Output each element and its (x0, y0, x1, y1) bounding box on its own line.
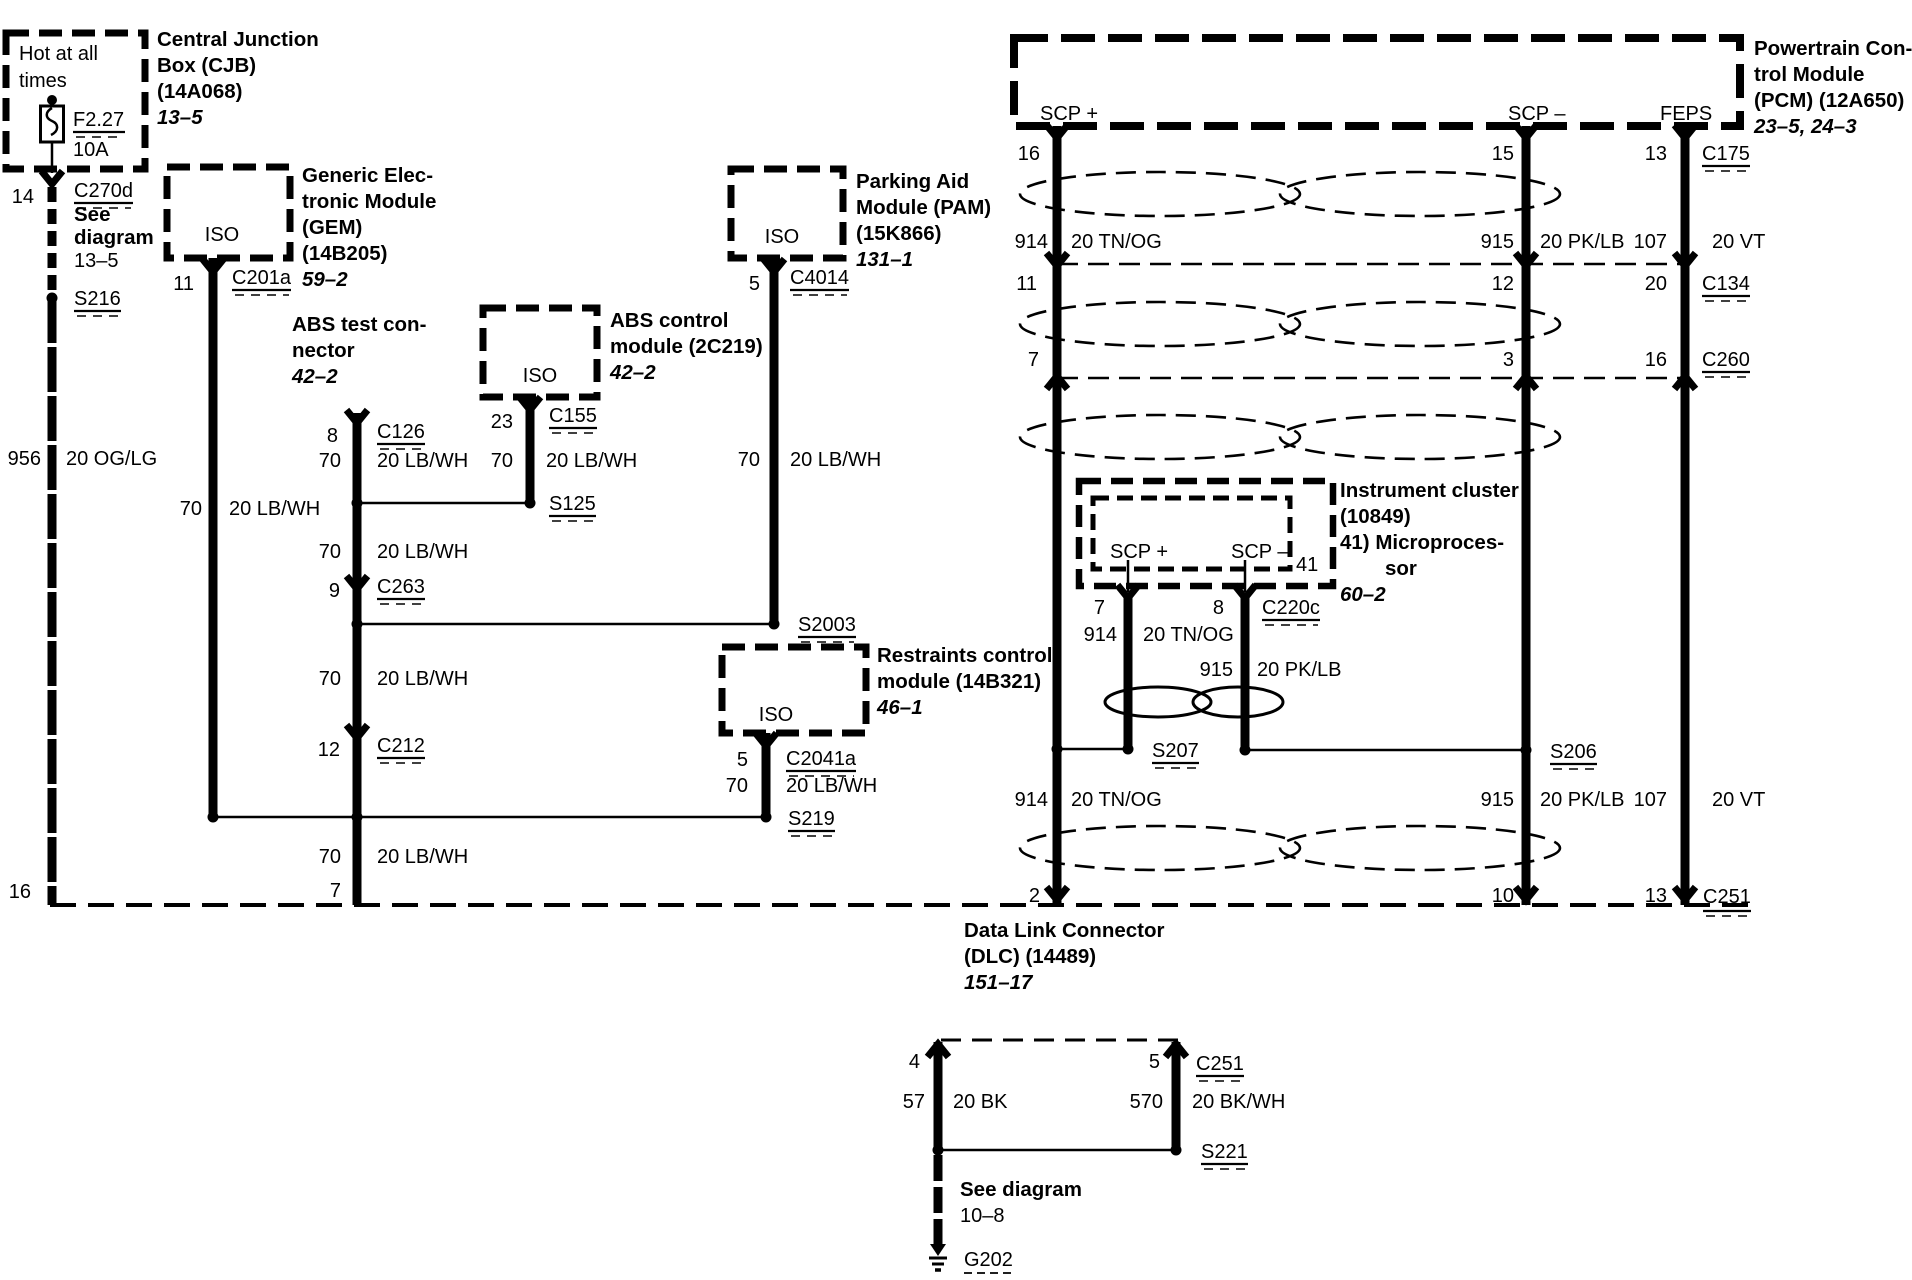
svg-text:C175: C175 (1702, 143, 1750, 165)
svg-text:13: 13 (1645, 885, 1667, 907)
svg-text:C263: C263 (377, 576, 425, 598)
svg-text:S216: S216 (74, 288, 121, 310)
svg-text:10: 10 (1492, 885, 1514, 907)
svg-text:20 LB/WH: 20 LB/WH (790, 449, 881, 471)
svg-text:12: 12 (318, 739, 340, 761)
twisted pair symbol row 2 (1020, 302, 1560, 346)
svg-text:C270d: C270d (74, 180, 133, 202)
svg-text:16: 16 (9, 881, 31, 903)
svg-text:20 TN/OG: 20 TN/OG (1071, 231, 1162, 253)
svg-text:Powertrain Con-: Powertrain Con- (1754, 37, 1912, 60)
svg-text:(14B205): (14B205) (302, 242, 387, 265)
svg-text:57: 57 (903, 1091, 925, 1113)
svg-text:914: 914 (1084, 624, 1117, 646)
svg-text:4: 4 (909, 1051, 920, 1073)
svg-text:7: 7 (1094, 597, 1105, 619)
connector C263 arrow pin 9 (347, 576, 368, 589)
Instrument cluster outer dashed box (1079, 481, 1333, 586)
svg-text:20: 20 (1645, 273, 1667, 295)
svg-text:nector: nector (292, 339, 355, 362)
svg-text:20 LB/WH: 20 LB/WH (229, 498, 320, 520)
Instrument cluster inner dashed box (41 Microprocessor) (1093, 498, 1290, 569)
svg-text:G202: G202 (964, 1249, 1013, 1271)
svg-text:14: 14 (12, 186, 34, 208)
svg-text:ISO: ISO (205, 224, 239, 246)
connector C4014 arrow pin 5 (764, 259, 785, 272)
svg-text:10A: 10A (73, 139, 109, 161)
cluster SCP+ lead wire (1127, 560, 1130, 592)
svg-text:Module (PAM): Module (PAM) (856, 196, 991, 219)
wire SCP+ (914 20 TN/OG) (1053, 126, 1062, 905)
svg-text:SCP –: SCP – (1508, 103, 1566, 125)
svg-text:2: 2 (1029, 885, 1040, 907)
splice S216 (47, 293, 58, 304)
Generic Electronic Module (GEM) dashed box (167, 167, 290, 258)
svg-text:70: 70 (319, 450, 341, 472)
svg-text:times: times (19, 70, 67, 92)
svg-text:C220c: C220c (1262, 597, 1320, 619)
svg-text:(14A068): (14A068) (157, 80, 242, 103)
connector C155 arrow pin 23 (520, 397, 541, 410)
svg-text:13: 13 (1645, 143, 1667, 165)
connector C270d arrow pin 14 (42, 171, 63, 184)
svg-text:11: 11 (173, 273, 194, 295)
ABS control module (2C219) dashed box (483, 308, 597, 397)
svg-text:sor: sor (1385, 557, 1417, 580)
svg-text:S2003: S2003 (798, 614, 856, 636)
svg-text:42–2: 42–2 (609, 361, 656, 384)
svg-text:20 LB/WH: 20 LB/WH (377, 450, 468, 472)
svg-text:C4014: C4014 (790, 267, 849, 289)
svg-text:Parking Aid: Parking Aid (856, 170, 969, 193)
svg-text:FEPS: FEPS (1660, 103, 1712, 125)
svg-text:20 LB/WH: 20 LB/WH (546, 450, 637, 472)
svg-text:107: 107 (1634, 231, 1667, 253)
dashed wire to ground (934, 1155, 943, 1246)
faint second underlines (scan artifact style) (76, 137, 1749, 1169)
svg-text:See: See (74, 203, 110, 226)
small twisted pair symbol (1105, 687, 1283, 717)
DLC ground subcircuit dashed connector line (941, 1039, 1179, 1042)
svg-text:915: 915 (1200, 659, 1233, 681)
PAM wire 70 20 LB/WH (770, 258, 779, 624)
connector C2041a arrow pin 5 (756, 733, 777, 746)
RCM wire 70 20 LB/WH (762, 733, 771, 817)
svg-text:C251: C251 (1196, 1053, 1244, 1075)
svg-text:5: 5 (1149, 1051, 1160, 1073)
GEM wire 70 20 LB/WH (209, 258, 218, 817)
svg-text:20 PK/LB: 20 PK/LB (1540, 231, 1625, 253)
connector C175 arrows pins 16 15 13 (1047, 125, 1068, 138)
svg-text:SCP +: SCP + (1110, 541, 1168, 563)
svg-text:(DLC) (14489): (DLC) (14489) (964, 945, 1096, 968)
splice S2003 line (357, 623, 774, 626)
svg-text:7: 7 (330, 880, 341, 902)
svg-text:20 VT: 20 VT (1712, 231, 1765, 253)
svg-text:Data Link Connector: Data Link Connector (964, 919, 1164, 942)
svg-text:C260: C260 (1702, 349, 1750, 371)
svg-text:tronic Module: tronic Module (302, 190, 436, 213)
svg-text:15: 15 (1492, 143, 1514, 165)
svg-text:70: 70 (319, 846, 341, 868)
svg-text:23: 23 (491, 411, 513, 433)
svg-text:SCP –: SCP – (1231, 541, 1289, 563)
Parking Aid Module (PAM) dashed box (731, 169, 843, 258)
svg-text:20 LB/WH: 20 LB/WH (377, 541, 468, 563)
svg-text:C251: C251 (1703, 886, 1751, 908)
svg-text:42–2: 42–2 (291, 365, 338, 388)
svg-text:60–2: 60–2 (1340, 583, 1386, 606)
svg-text:41) Microproces-: 41) Microproces- (1340, 531, 1504, 554)
svg-text:70: 70 (726, 775, 748, 797)
Central Junction Box (CJB) dashed box (6, 33, 145, 169)
svg-text:20 LB/WH: 20 LB/WH (377, 668, 468, 690)
svg-text:13–5: 13–5 (157, 106, 203, 129)
svg-text:5: 5 (749, 273, 760, 295)
svg-text:C2041a: C2041a (786, 748, 857, 770)
connector C201a arrow pin 11 (203, 259, 224, 272)
svg-text:70: 70 (319, 541, 341, 563)
svg-text:ABS control: ABS control (610, 309, 728, 332)
svg-text:46–1: 46–1 (876, 696, 923, 719)
svg-text:Restraints control: Restraints control (877, 644, 1052, 667)
svg-text:41: 41 (1296, 554, 1318, 576)
bottom dashed bus line to DLC (50, 903, 1750, 907)
svg-text:(15K866): (15K866) (856, 222, 941, 245)
ABS test connector wire (353, 413, 362, 905)
twisted pair symbol row 4 (1020, 826, 1560, 870)
svg-text:5: 5 (737, 749, 748, 771)
svg-text:C155: C155 (549, 405, 597, 427)
svg-text:S219: S219 (788, 808, 835, 830)
twisted pair symbol row 3 (1020, 415, 1560, 459)
svg-text:7: 7 (1028, 349, 1039, 371)
svg-text:915: 915 (1481, 789, 1514, 811)
svg-text:20 PK/LB: 20 PK/LB (1257, 659, 1342, 681)
Restraints control module dashed box (722, 647, 866, 733)
DLC pin 4 wire 57 20 BK (934, 1042, 943, 1150)
svg-text:20 BK/WH: 20 BK/WH (1192, 1091, 1285, 1113)
svg-text:956: 956 (8, 448, 41, 470)
svg-text:151–17: 151–17 (964, 971, 1034, 994)
svg-text:12: 12 (1492, 273, 1514, 295)
svg-text:20 TN/OG: 20 TN/OG (1071, 789, 1162, 811)
svg-text:C126: C126 (377, 421, 425, 443)
connector C251 arrows pins 2 10 13 (1047, 887, 1068, 900)
wire 956 20 OG/LG (48, 298, 57, 905)
svg-text:20 LB/WH: 20 LB/WH (377, 846, 468, 868)
svg-text:Central Junction: Central Junction (157, 28, 319, 51)
svg-text:ISO: ISO (759, 704, 793, 726)
splice S125 line (357, 502, 530, 505)
wire SCP- (915 20 PK/LB) (1522, 126, 1531, 905)
svg-text:Box (CJB): Box (CJB) (157, 54, 256, 77)
connector C212 arrow pin 12 (347, 725, 368, 738)
svg-text:Hot at all: Hot at all (19, 43, 98, 65)
svg-text:Instrument cluster: Instrument cluster (1340, 479, 1519, 502)
svg-text:16: 16 (1645, 349, 1667, 371)
svg-text:9: 9 (329, 580, 340, 602)
svg-text:S125: S125 (549, 493, 596, 515)
ground G202 (930, 1244, 946, 1256)
svg-text:70: 70 (319, 668, 341, 690)
svg-text:70: 70 (180, 498, 202, 520)
svg-text:20 TN/OG: 20 TN/OG (1143, 624, 1234, 646)
cluster SCP- lead wire (1244, 560, 1247, 592)
svg-text:10–8: 10–8 (960, 1205, 1005, 1227)
svg-text:8: 8 (1213, 597, 1224, 619)
svg-text:20 BK: 20 BK (953, 1091, 1008, 1113)
svg-text:ISO: ISO (765, 226, 799, 248)
splice S206 line (1245, 749, 1526, 752)
svg-text:570: 570 (1130, 1091, 1163, 1113)
twisted pair symbol row 1 (1020, 172, 1560, 216)
svg-text:module (14B321): module (14B321) (877, 670, 1041, 693)
splice S219 line (213, 816, 766, 819)
svg-text:S206: S206 (1550, 741, 1597, 763)
svg-text:See diagram: See diagram (960, 1178, 1082, 1201)
svg-text:20 PK/LB: 20 PK/LB (1540, 789, 1625, 811)
svg-text:Generic Elec-: Generic Elec- (302, 164, 433, 187)
svg-text:C201a: C201a (232, 267, 292, 289)
svg-text:8: 8 (327, 425, 338, 447)
svg-text:20 OG/LG: 20 OG/LG (66, 448, 157, 470)
svg-text:16: 16 (1018, 143, 1040, 165)
svg-text:914: 914 (1015, 789, 1048, 811)
splice S221 line (938, 1149, 1176, 1152)
svg-text:C134: C134 (1702, 273, 1750, 295)
svg-text:70: 70 (491, 450, 513, 472)
svg-text:59–2: 59–2 (302, 268, 348, 291)
splice S207 line (1057, 748, 1128, 751)
wire FEPS (107 20 VT) (1681, 126, 1690, 905)
DLC pin 5 wire 570 20 BK/WH (1172, 1042, 1181, 1150)
svg-text:13–5: 13–5 (74, 250, 119, 272)
svg-text:S207: S207 (1152, 740, 1199, 762)
svg-text:23–5, 24–3: 23–5, 24–3 (1753, 115, 1857, 138)
svg-text:107: 107 (1634, 789, 1667, 811)
svg-text:ISO: ISO (523, 365, 557, 387)
connector C134 dashed row (1057, 263, 1685, 266)
svg-text:20 LB/WH: 20 LB/WH (786, 775, 877, 797)
ABS control wire 70 20 LB/WH (526, 397, 535, 503)
svg-text:11: 11 (1016, 273, 1037, 295)
svg-text:S221: S221 (1201, 1141, 1248, 1163)
svg-text:C212: C212 (377, 735, 425, 757)
svg-text:(10849): (10849) (1340, 505, 1411, 528)
svg-text:914: 914 (1015, 231, 1048, 253)
svg-text:915: 915 (1481, 231, 1514, 253)
svg-text:ABS test con-: ABS test con- (292, 313, 426, 336)
svg-text:SCP +: SCP + (1040, 103, 1098, 125)
svg-text:(PCM) (12A650): (PCM) (12A650) (1754, 89, 1904, 112)
svg-text:70: 70 (738, 449, 760, 471)
Powertrain Control Module (PCM) dashed box (1014, 38, 1740, 126)
svg-text:module (2C219): module (2C219) (610, 335, 763, 358)
svg-text:3: 3 (1503, 349, 1514, 371)
connector C126 arrow pin 8 (347, 410, 368, 423)
svg-text:F2.27: F2.27 (73, 109, 124, 131)
svg-text:(GEM): (GEM) (302, 216, 362, 239)
svg-text:131–1: 131–1 (856, 248, 913, 271)
fuse F2.27 10A (47, 95, 57, 105)
wire dashed from C270d to S216 (48, 187, 57, 294)
svg-text:20 VT: 20 VT (1712, 789, 1765, 811)
svg-text:diagram: diagram (74, 226, 154, 249)
svg-text:trol Module: trol Module (1754, 63, 1864, 86)
